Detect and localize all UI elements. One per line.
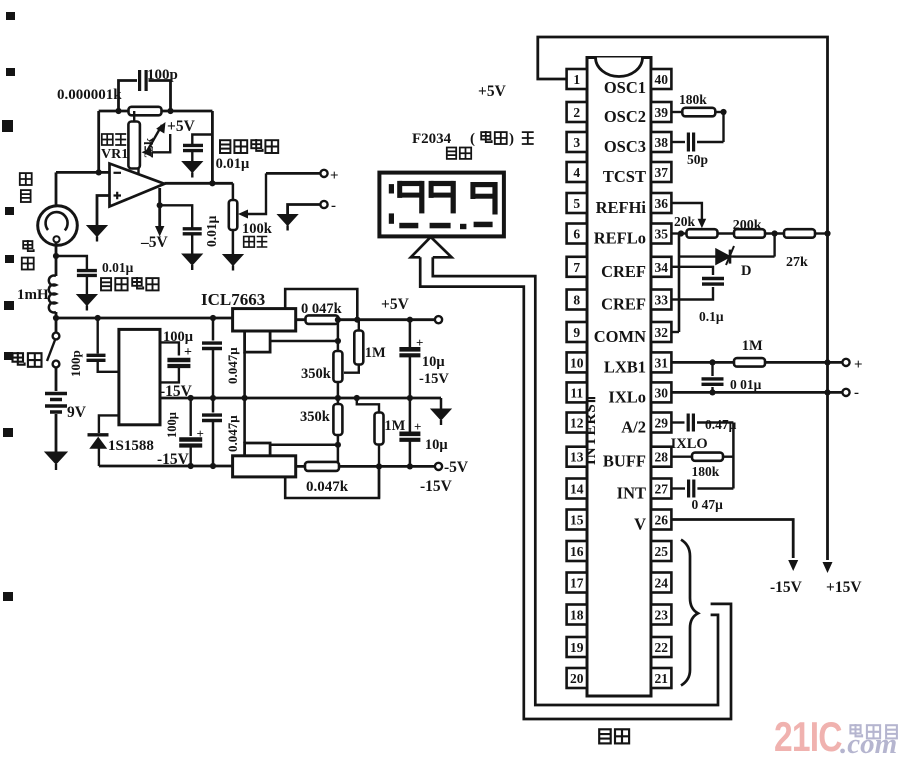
svg-text:6: 6 (573, 227, 580, 242)
pin 4 (567, 162, 587, 182)
svg-text:COMN: COMN (594, 327, 646, 346)
capacitor 50p (671, 141, 685, 143)
pin 6 (567, 224, 587, 244)
svg-text:35: 35 (654, 227, 668, 242)
pin 19 (567, 637, 587, 657)
potentiometer 100k (232, 183, 235, 200)
wire: tab link down (243, 352, 246, 443)
svg-text:37: 37 (654, 165, 668, 180)
svg-text:+5V: +5V (167, 118, 196, 135)
svg-text:39: 39 (654, 105, 668, 120)
svg-text:29: 29 (654, 416, 668, 431)
wire: feedback left leg (97, 111, 100, 172)
pin 22 (651, 637, 671, 657)
resistor 0.047k bottom (305, 462, 339, 471)
pin 7 (567, 257, 587, 277)
svg-text:+5V: +5V (381, 296, 410, 313)
regulator IC2 (233, 456, 296, 477)
pin 11 (567, 382, 587, 402)
svg-text:19: 19 (570, 640, 584, 655)
svg-text:-: - (854, 385, 859, 401)
svg-text:36: 36 (654, 196, 668, 211)
svg-text:F2034: F2034 (412, 131, 452, 147)
svg-text:REFHi: REFHi (596, 198, 647, 217)
svg-text:0.01μ: 0.01μ (216, 156, 250, 172)
svg-text:): ) (509, 131, 514, 147)
wire: pins 35-34-33 column (678, 234, 681, 333)
text 陶瓷电容 (220, 140, 231, 153)
wire: feedback resistor loop top (99, 110, 129, 113)
svg-text:28: 28 (654, 450, 668, 465)
100k wiper arrow (238, 210, 248, 219)
resistor 0.047k top (306, 315, 339, 324)
svg-text:0 47μ: 0 47μ (692, 497, 724, 512)
node + output terminal (266, 172, 321, 175)
svg-text:-15V: -15V (420, 478, 453, 495)
wire: bottom bus (99, 465, 233, 468)
svg-text:0.047μ: 0.047μ (225, 347, 240, 384)
svg-text:+: + (330, 168, 339, 184)
svg-text:OSC2: OSC2 (604, 107, 646, 126)
resistor 27k (784, 229, 815, 238)
svg-text:0.01μ: 0.01μ (204, 215, 219, 247)
svg-text:100p: 100p (147, 67, 178, 83)
svg-text:0.01μ: 0.01μ (102, 260, 134, 275)
pin 9 (567, 322, 587, 342)
seven segment digits 99.9 (389, 184, 394, 193)
svg-text:+: + (854, 357, 863, 373)
text 阴极 cathode (20, 173, 32, 185)
svg-text:IXLo: IXLo (608, 387, 646, 406)
scan artifacts left edge (6, 12, 15, 20)
svg-text:10μ: 10μ (422, 354, 446, 370)
svg-text:0.047k: 0.047k (306, 479, 349, 495)
text 显示 display (447, 148, 456, 159)
wire: -5V rail (296, 465, 437, 468)
wire: non-inverting input to ground (97, 196, 110, 226)
-15V arrow (788, 560, 798, 571)
dc-dc converter box (119, 329, 160, 424)
capacitor 0.47u pin27 (671, 487, 685, 489)
pin 18 (567, 605, 587, 625)
svg-text:100μ: 100μ (163, 329, 194, 345)
svg-text:ICL7663: ICL7663 (201, 290, 265, 309)
svg-text:+: + (416, 335, 423, 350)
svg-text:+: + (184, 345, 192, 360)
svg-text:0 01μ: 0 01μ (730, 377, 762, 392)
pin 37 (651, 162, 671, 182)
resistor 1M second (357, 398, 379, 412)
pin 24 (651, 573, 671, 593)
wire: pin30 IXLo row (671, 391, 842, 394)
ground (87, 226, 107, 237)
loop over 0.047k (285, 289, 357, 320)
svg-text:24: 24 (654, 576, 668, 591)
svg-text:2: 2 (573, 105, 580, 120)
ground (278, 215, 298, 226)
wire: pin26 V to -15V (671, 520, 793, 559)
svg-text:15: 15 (570, 513, 584, 528)
svg-text:+5V: +5V (478, 83, 507, 100)
svg-text:200k: 200k (733, 218, 762, 233)
svg-text:OSC3: OSC3 (604, 137, 646, 156)
pin 25 (651, 541, 671, 561)
svg-text:IXLO: IXLO (671, 436, 708, 452)
svg-text:9V: 9V (67, 404, 87, 421)
svg-text:7: 7 (573, 260, 580, 275)
trimmer 20k (671, 232, 686, 234)
resistor 1M out (734, 358, 765, 367)
ground (182, 162, 202, 173)
svg-text:+: + (414, 419, 421, 434)
resistor 350k first (333, 351, 342, 382)
node: main bus (56, 317, 233, 320)
svg-text:20: 20 (570, 671, 584, 686)
svg-text:A/2: A/2 (621, 418, 646, 437)
svg-text:12: 12 (570, 416, 584, 431)
svg-text:32: 32 (654, 325, 668, 340)
capacitor 0.1u (679, 267, 713, 275)
svg-text:180k: 180k (692, 464, 720, 479)
svg-text:11: 11 (570, 385, 583, 400)
svg-text:17: 17 (570, 576, 584, 591)
svg-text:-5V: -5V (444, 459, 469, 476)
resistor 180k osc (671, 111, 682, 113)
pin 12 (567, 413, 587, 433)
pin 30 (651, 382, 671, 402)
svg-text:+15V: +15V (826, 579, 862, 596)
pin 39 (651, 102, 671, 122)
node - output terminal (288, 205, 321, 215)
wire: +5V to VR1 wiper (152, 134, 170, 152)
photo detector tube (38, 206, 78, 246)
svg-text:V: V (634, 515, 646, 534)
svg-text:+: + (197, 426, 204, 441)
svg-text:VR1: VR1 (101, 147, 128, 162)
text 电子网 (850, 724, 862, 736)
IC1 tab (245, 331, 271, 352)
text 电源 power (13, 352, 25, 365)
capacitor 0.047u x2 column (212, 318, 215, 341)
svg-text:D: D (741, 263, 751, 279)
svg-text:21: 21 (654, 671, 668, 686)
pin 3 (567, 132, 587, 152)
svg-text:100k: 100k (242, 221, 273, 237)
loop under 0.047k bottom (285, 466, 379, 498)
svg-text:-15V: -15V (419, 371, 449, 387)
svg-text:21IC: 21IC (774, 715, 842, 761)
wire: +5V rail (296, 318, 437, 321)
resistor 1M first (358, 320, 360, 330)
svg-text:-: - (331, 198, 336, 214)
pin 10 (567, 352, 587, 372)
logo 21IC.com (774, 715, 842, 761)
svg-text:CREF: CREF (601, 262, 646, 281)
text 显示 bottom (599, 729, 611, 743)
svg-text:30: 30 (654, 385, 668, 400)
pin 35 (651, 224, 671, 244)
wire: pin31 LXB1 row (671, 361, 734, 364)
trimmer VR1 25k (128, 122, 140, 169)
pin 1 (567, 69, 587, 89)
svg-text:1M: 1M (365, 345, 386, 361)
regulator IC2 tab (245, 443, 271, 456)
wire: pin36 to 20k wiper (671, 203, 702, 220)
ground (223, 255, 243, 266)
svg-text:34: 34 (654, 260, 668, 275)
svg-text:10μ: 10μ (425, 437, 449, 453)
pin 33 (651, 290, 671, 310)
svg-text:16: 16 (570, 544, 584, 559)
brace pins 21-25 (681, 540, 698, 686)
svg-text:5: 5 (573, 196, 580, 211)
svg-text:40: 40 (654, 72, 668, 87)
svg-text:0.047μ: 0.047μ (225, 415, 240, 452)
pin 28 (651, 447, 671, 467)
svg-text:350k: 350k (300, 409, 331, 425)
svg-text:1mH: 1mH (17, 287, 49, 303)
svg-text:14: 14 (570, 482, 584, 497)
wire: 100p feedback loop (119, 81, 138, 112)
capacitor 0.01u at -5V (160, 205, 193, 228)
wire: inverting input (56, 171, 110, 174)
svg-text:350k: 350k (301, 366, 332, 382)
svg-text:OSC1: OSC1 (604, 78, 646, 97)
+15V arrow (823, 562, 833, 573)
wire: box right leg to output (211, 111, 214, 183)
svg-text:1: 1 (573, 72, 580, 87)
svg-text:33: 33 (654, 293, 668, 308)
wire: pin1 to V+ top loop (538, 37, 828, 560)
svg-text:REFLo: REFLo (594, 229, 646, 248)
battery 9V (55, 368, 58, 392)
text 微调 (trim) (102, 134, 113, 145)
svg-text:10: 10 (570, 355, 584, 370)
text 陶瓷电容 (101, 278, 111, 290)
svg-text:1M: 1M (742, 338, 763, 354)
display bus tube outer (420, 257, 731, 719)
wire: -15V mid bus (160, 397, 441, 400)
svg-text:22: 22 (654, 640, 668, 655)
capacitor 0.47u pin29 (671, 421, 684, 423)
resistor feedback 0.000001k (129, 107, 162, 116)
svg-text:18: 18 (570, 608, 584, 623)
svg-text:180k: 180k (679, 92, 707, 107)
svg-text:TCST: TCST (603, 167, 646, 186)
pin 36 (651, 193, 671, 213)
resistor 200k (718, 232, 735, 234)
capacitor 10u first (409, 320, 412, 347)
wire: right loop 29-27 (732, 423, 735, 489)
regulator IC1 (233, 309, 296, 331)
pin 2 (567, 102, 587, 122)
diode 1S1588 (99, 415, 119, 433)
diode D (679, 255, 717, 257)
wire: anode down (55, 243, 58, 257)
ground (77, 295, 97, 306)
pin 20 (567, 668, 587, 688)
pin 23 (651, 605, 671, 625)
pin 38 (651, 132, 671, 152)
svg-text:INT: INT (617, 484, 646, 503)
svg-text:0.1μ: 0.1μ (699, 309, 724, 324)
svg-text:4: 4 (573, 165, 580, 180)
capacitor 100p power (96, 318, 98, 354)
svg-text:–5V: –5V (140, 234, 169, 251)
svg-text:23: 23 (654, 608, 668, 623)
op-amp U1 (110, 164, 165, 207)
pin 15 (567, 510, 587, 530)
ground (45, 452, 67, 464)
text 东芝 Toshiba (481, 131, 492, 142)
svg-text:13: 13 (570, 450, 584, 465)
pin 14 (567, 479, 587, 499)
switch 电源 (55, 318, 58, 333)
svg-text:1S1588: 1S1588 (108, 438, 154, 454)
capacitor 0.01u out (711, 362, 713, 376)
pin 26 (651, 510, 671, 530)
svg-text:BUFF: BUFF (603, 452, 646, 471)
capacitor 100u (160, 342, 179, 355)
svg-text:27k: 27k (786, 255, 808, 270)
capacitor 0.01u ceramic (+5V) (192, 135, 211, 145)
text 微调 (244, 237, 255, 248)
svg-text:(: ( (470, 131, 475, 147)
pin 8 (567, 290, 587, 310)
pin 27 (651, 479, 671, 499)
svg-text:100p: 100p (68, 350, 83, 377)
VR1 adjust arrow (146, 125, 162, 153)
svg-text:8: 8 (573, 293, 580, 308)
pin 29 (651, 413, 671, 433)
wire: tab2 to 350k2 (270, 444, 338, 447)
wire: op-amp output (165, 182, 233, 185)
svg-text:0.000001k: 0.000001k (57, 87, 122, 103)
capacitor 0.01u ceramic at anode (56, 256, 87, 270)
IC INTERSIL body (587, 58, 651, 697)
svg-text:26: 26 (654, 513, 668, 528)
capacitor 100u second (189, 398, 191, 436)
wire: op-amp V- to -5V (158, 188, 161, 230)
svg-text:0.47μ: 0.47μ (705, 417, 737, 432)
pin 17 (567, 573, 587, 593)
inductor 1mH (55, 256, 58, 276)
svg-text:100μ: 100μ (165, 412, 179, 438)
svg-text:38: 38 (654, 135, 668, 150)
svg-text:0 047k: 0 047k (301, 301, 343, 317)
wire: tab to 350k (270, 340, 338, 343)
capacitor 10u second (409, 398, 412, 432)
ground (431, 409, 451, 420)
svg-text:CREF: CREF (601, 295, 646, 314)
svg-text:25k: 25k (141, 137, 156, 158)
pin 16 (567, 541, 587, 561)
svg-text:31: 31 (654, 355, 668, 370)
text 等 (522, 132, 534, 144)
ground (182, 254, 202, 265)
text 阳极 anode (23, 240, 34, 251)
pin 5 (567, 193, 587, 213)
svg-text:27: 27 (654, 482, 668, 497)
pin 40 (651, 69, 671, 89)
wire: cathode to op-amp (55, 172, 58, 205)
display bus tube inner (433, 257, 718, 705)
pin 21 (651, 668, 671, 688)
pin 13 (567, 447, 587, 467)
capacitor 100p (140, 70, 147, 91)
display module F2034 (379, 173, 504, 237)
svg-text:-15V: -15V (770, 579, 803, 596)
svg-text:50p: 50p (687, 152, 708, 167)
ground at mid bus (440, 398, 443, 409)
pin 34 (651, 257, 671, 277)
resistor 180k pin28 (671, 456, 692, 458)
svg-text:9: 9 (573, 325, 580, 340)
svg-text:3: 3 (573, 135, 580, 150)
svg-text:25: 25 (654, 544, 668, 559)
resistor 350k second (337, 398, 340, 404)
svg-text:20k: 20k (674, 214, 696, 229)
display bus arrow (hollow) (411, 237, 452, 257)
svg-text:LXB1: LXB1 (604, 357, 646, 376)
pin 32 (651, 322, 671, 342)
pin 31 (651, 352, 671, 372)
